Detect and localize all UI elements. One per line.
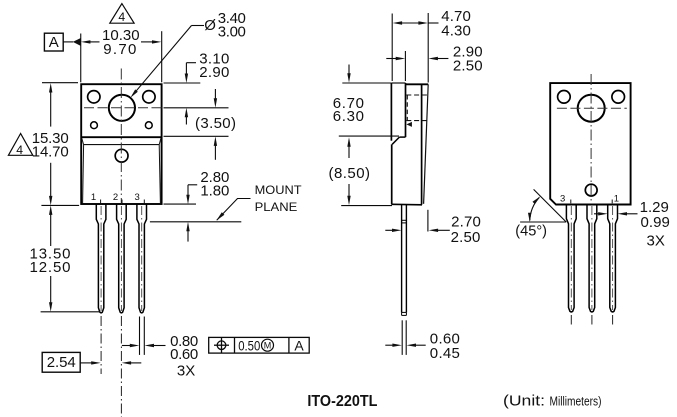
svg-text:2: 2	[113, 192, 118, 203]
chamfer extension line 45 deg	[534, 189, 567, 222]
arc arrow upper	[533, 196, 541, 204]
svg-text:Millimeters): Millimeters)	[550, 394, 602, 409]
svg-text:14.70: 14.70	[32, 143, 69, 160]
dim 10.30 extension line right	[161, 31, 163, 82]
svg-text:(45°): (45°)	[515, 223, 547, 240]
svg-text:3: 3	[560, 194, 565, 205]
svg-text:A: A	[294, 337, 304, 353]
side dimension texts	[329, 8, 483, 362]
svg-text:4: 4	[118, 10, 125, 24]
front dimension texts	[16, 10, 304, 380]
dim 2.70 right arrow	[429, 229, 439, 232]
svg-text:M: M	[264, 341, 272, 351]
front lead 1	[96, 204, 106, 313]
side step horizontal	[399, 136, 405, 138]
triangle flag 4 (left)	[8, 134, 32, 156]
back hole horizontal centerline	[557, 107, 627, 109]
dim 8.50 top arrow	[347, 137, 350, 147]
svg-text:ITO-220TL: ITO-220TL	[307, 393, 377, 410]
front body top thin line	[84, 144, 160, 146]
datum A leader	[63, 41, 73, 43]
dim 0.60 right arrow	[407, 344, 417, 347]
side step chamfer	[392, 137, 399, 144]
triangle flag 4 (top)	[110, 4, 134, 24]
front mounting hole	[109, 95, 135, 121]
side bottom extension line	[341, 205, 392, 207]
svg-text:2.54: 2.54	[47, 354, 76, 371]
back package outline	[550, 83, 630, 204]
datum A triangle	[73, 38, 81, 46]
position symbol	[217, 341, 226, 350]
back bottom hole	[585, 184, 597, 196]
dim 3.10/2.90 upper arrow	[186, 62, 196, 64]
dim 0.80/0.60 left arrow	[122, 345, 130, 347]
front top-right hole	[143, 91, 155, 103]
back vertical centerline	[590, 74, 592, 204]
dim 2.70 left arrow	[385, 229, 392, 231]
lead tip extension line	[41, 311, 101, 313]
dim 4.70 extension left	[391, 14, 393, 82]
svg-text:4: 4	[16, 143, 23, 157]
side lower front face	[391, 144, 393, 204]
dim 3.50 lower arrow	[214, 136, 217, 146]
svg-text:1: 1	[614, 194, 619, 205]
back mounting hole	[578, 95, 605, 122]
side hidden hole bottom dashed	[406, 120, 428, 122]
front pin number labels	[91, 192, 140, 203]
side back face outer line	[424, 84, 429, 204]
front tab bottom step line	[81, 136, 161, 138]
svg-text:(3.50): (3.50)	[195, 115, 236, 132]
hole centerline extension right	[164, 107, 229, 109]
front lead 2 centerline extension below tip	[120, 316, 122, 417]
side bottom edge	[391, 203, 422, 206]
svg-text:Ø: Ø	[204, 17, 216, 34]
chamfer angle arc	[530, 198, 539, 221]
back dimension texts	[515, 199, 670, 250]
lead 3 width extension lines	[139, 317, 141, 355]
back pin 1	[608, 205, 618, 312]
svg-text:0.50: 0.50	[238, 337, 260, 353]
dim 3.50 upper arrow	[214, 89, 216, 99]
dim 6.70 top arrow	[348, 65, 350, 75]
front body right draft line	[159, 145, 160, 204]
svg-text:4.30: 4.30	[441, 22, 471, 39]
back top-right hole	[612, 91, 625, 104]
side lead crimp marks	[402, 219, 407, 221]
back pin 2	[587, 205, 597, 312]
front step left taper	[82, 138, 84, 144]
side back face inner line	[421, 84, 423, 204]
bottom edge extension left	[41, 204, 79, 206]
dim 4.70 extension right	[427, 13, 429, 83]
chamfer horizontal reference line	[520, 221, 566, 223]
svg-text:0.60: 0.60	[170, 346, 198, 363]
dim 2.90 arrows	[386, 58, 396, 60]
svg-text:2.50: 2.50	[451, 229, 481, 246]
front lead 2	[117, 204, 127, 313]
front lead 3 centerline	[141, 206, 143, 311]
dim 1.29 right arrow	[618, 212, 628, 215]
hole diameter leader	[192, 25, 205, 27]
front top-left hole	[88, 91, 100, 103]
side gate mark arrow	[406, 122, 412, 127]
dim 2.70 extension right	[427, 210, 429, 232]
dim 2.54 leader line	[80, 362, 91, 364]
mount plane line	[150, 221, 241, 223]
bottom edge extension right	[164, 203, 197, 205]
svg-text:0.45: 0.45	[430, 345, 460, 362]
dim 10.30 right arrow	[152, 40, 162, 43]
back pin 3	[566, 205, 576, 312]
dim 13.50 upper arrow	[49, 205, 52, 215]
svg-text:3X: 3X	[647, 233, 665, 250]
side hidden hole top dashed	[406, 94, 428, 96]
dim 2.90 extension line	[404, 51, 406, 81]
svg-text:1: 1	[91, 192, 96, 203]
back pin number ticks	[570, 200, 572, 204]
top edge extension left	[42, 82, 78, 84]
svg-text:3.00: 3.00	[218, 23, 246, 40]
svg-text:(8.50): (8.50)	[329, 165, 371, 182]
datum A box	[44, 33, 63, 51]
svg-text:3: 3	[135, 192, 140, 203]
front package outline	[81, 84, 161, 204]
top edge extension right	[164, 82, 201, 84]
front small hole right	[145, 122, 152, 129]
svg-text:9.70: 9.70	[103, 41, 136, 58]
side upper front face	[405, 83, 407, 137]
front lead 1 centerline	[100, 206, 102, 311]
dim 6.70 extension left (tab top)	[342, 82, 391, 84]
svg-text:MOUNT: MOUNT	[255, 183, 302, 197]
modifier M circle	[262, 339, 274, 351]
svg-text:2.50: 2.50	[453, 58, 483, 75]
dim 10.30 left arrow	[81, 40, 91, 43]
front hole horizontal centerline	[84, 107, 163, 109]
back top-left hole	[558, 91, 571, 104]
svg-text:A: A	[49, 34, 59, 51]
front pin number ticks	[100, 200, 102, 204]
back pin number labels	[560, 194, 619, 205]
front lead 2 centerline	[120, 206, 122, 311]
svg-text:(Unit:: (Unit:	[503, 393, 545, 410]
side body top edge	[406, 83, 429, 85]
dim 2.80/1.80 lower arrow	[186, 222, 189, 232]
front step right taper	[159, 138, 161, 144]
tab step extension right	[164, 135, 229, 137]
dim 15.30 lower arrow	[50, 163, 52, 196]
dim 0.80/0.60 right arrow	[145, 344, 155, 347]
front lead 1 centerline extension below tip	[100, 316, 102, 374]
front small hole left	[91, 122, 98, 129]
dim 2.54 box	[42, 352, 80, 372]
dim 0.60 left arrow	[385, 344, 393, 346]
svg-text:PLANE: PLANE	[255, 200, 298, 214]
dim 4.70 arrows	[393, 21, 403, 24]
arc arrow lower	[528, 213, 531, 222]
svg-text:0.99: 0.99	[641, 214, 670, 231]
dim 3.10/2.90 lower arrow	[185, 108, 188, 118]
dim 2.54 left arrow	[91, 361, 101, 364]
dim 1.29 left arrow	[594, 213, 599, 215]
mount plane leader	[217, 199, 251, 221]
dim 10.30 extension line left	[80, 34, 82, 83]
step level extension line	[339, 135, 399, 137]
svg-text:12.50: 12.50	[30, 259, 71, 276]
svg-text:2.90: 2.90	[199, 64, 229, 81]
dim 13.50 lower arrow	[50, 276, 52, 303]
dim 2.80/1.80 upper arrow	[188, 184, 197, 186]
dim 8.50 bottom arrow	[348, 184, 350, 196]
side tab top edge	[391, 82, 405, 84]
dim 15.30 upper arrow	[49, 83, 52, 93]
side tab left edge	[390, 83, 392, 141]
svg-text:6.30: 6.30	[333, 108, 364, 125]
front vertical centerline	[120, 69, 122, 204]
front body circle	[115, 149, 128, 162]
svg-text:3X: 3X	[177, 362, 195, 379]
side lead tip box	[402, 311, 407, 313]
svg-text:1.80: 1.80	[200, 182, 229, 199]
dim 2.54 right arrow	[122, 361, 132, 364]
front body left draft line	[83, 145, 84, 204]
back pin centerlines	[570, 206, 572, 310]
back pin centerline stubs below tips	[570, 315, 572, 325]
side hidden vertical dashed	[406, 95, 408, 121]
front lead 3	[137, 204, 147, 313]
feature control frame	[209, 337, 310, 353]
lead width extension lines	[401, 320, 403, 355]
side lead outline	[402, 205, 407, 313]
